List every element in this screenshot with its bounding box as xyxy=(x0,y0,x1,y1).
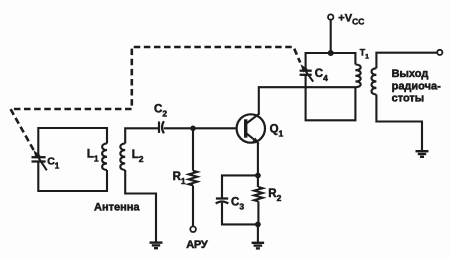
svg-text:стоты: стоты xyxy=(392,93,425,105)
svg-text:Выход: Выход xyxy=(392,68,429,80)
svg-text:радиоча-: радиоча- xyxy=(392,80,442,92)
svg-text:АРУ: АРУ xyxy=(186,239,208,251)
svg-text:Антенна: Антенна xyxy=(94,202,140,214)
